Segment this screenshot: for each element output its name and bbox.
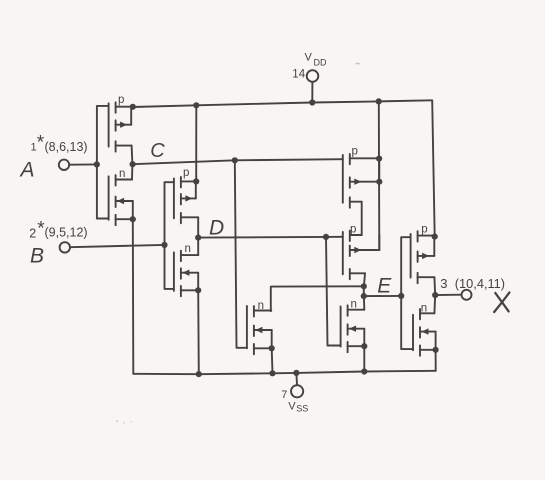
- scan smudge: [356, 63, 361, 65]
- node label A: [19, 158, 35, 181]
- wire N5 source down to VSS rail: [435, 350, 437, 371]
- wire N3 drain up to node E: [271, 286, 364, 311]
- label n of N2: [185, 243, 191, 255]
- junction N4 source: [361, 343, 367, 349]
- wire N5 drain up to output node X: [433, 295, 436, 313]
- svg-text:(8,6,13): (8,6,13): [45, 140, 88, 154]
- transistor P3 (p-channel, series pull-up, gate C): [343, 154, 380, 208]
- scan speck: [116, 420, 132, 424]
- transistor P5 (p-channel, output inverter): [411, 231, 435, 283]
- junction node C at N3 gate feed: [232, 157, 238, 163]
- wire node E jog: [363, 286, 365, 296]
- svg-text:p: p: [352, 146, 358, 158]
- node label D: [209, 217, 224, 240]
- wire P2 drain down to node D: [197, 217, 199, 237]
- wire P1 drain to node C: [131, 146, 134, 165]
- transistor P4 (p-channel, series pull-up, gate D): [343, 231, 380, 280]
- transistor N5 (n-channel, output inverter): [413, 309, 436, 356]
- input terminal B circle: [60, 242, 70, 252]
- svg-text:p: p: [350, 223, 356, 235]
- wire N3 source down to VSS rail: [271, 348, 274, 373]
- junction N2 source: [195, 287, 201, 293]
- wire N1 source down to VSS rail: [132, 219, 135, 374]
- svg-text:SS: SS: [296, 403, 308, 413]
- wire node C to P3 gate: [132, 159, 342, 164]
- junction node C at inverter A output: [130, 161, 136, 167]
- transistor P1 (p-channel, input A inverter): [109, 102, 133, 151]
- node label C: [150, 140, 165, 162]
- junction node D at N4 gate feed: [323, 234, 329, 240]
- wire node E to output inverter gate stem: [364, 295, 401, 297]
- wire vertical VDD rail to P2 source: [195, 105, 197, 181]
- junction P3 source on VDD vertical: [376, 156, 382, 162]
- svg-text:A: A: [19, 158, 35, 181]
- wire node D down to N4 gate: [326, 237, 341, 346]
- svg-text:2: 2: [29, 226, 36, 240]
- label p of P4: [350, 223, 356, 235]
- junction rail at P2 feed: [193, 102, 199, 108]
- label n of N1: [119, 168, 125, 180]
- label n of N5: [421, 303, 427, 315]
- wire node D to P4 gate: [198, 236, 343, 239]
- junction rail at N3 source: [269, 370, 275, 376]
- wire gate stem inverter B: [165, 182, 174, 289]
- transistor P2 (p-channel, input B inverter): [174, 177, 198, 223]
- wire output node X to terminal: [435, 294, 461, 296]
- node label X: [494, 293, 509, 313]
- svg-text:1: 1: [31, 141, 37, 153]
- wire N2 source down to VSS rail: [197, 290, 200, 374]
- wire VSS bottom rail: [133, 371, 435, 374]
- pin number 14: [292, 69, 305, 81]
- junction N5 source: [433, 347, 439, 353]
- junction rail at P3 feed: [376, 98, 382, 104]
- junction N3 source: [269, 345, 275, 351]
- svg-text:n: n: [258, 300, 264, 312]
- wire N1 drain up to node C: [131, 164, 133, 179]
- svg-text:p: p: [421, 223, 427, 235]
- junction rail at VDD terminal: [309, 99, 315, 105]
- wire right vertical from VDD rail to P5 source: [432, 100, 435, 236]
- pin list (10,4,11): [455, 276, 505, 291]
- wire N4 source down to VSS rail: [363, 346, 365, 371]
- pin list (9,5,12): [45, 225, 88, 239]
- junction output node X: [432, 292, 438, 298]
- junction rail at N2 source: [196, 371, 202, 377]
- net label VDD: [305, 52, 327, 68]
- junction node E on output gate stem: [398, 293, 404, 299]
- svg-text:B: B: [30, 245, 44, 268]
- wire gate stem output inverter: [401, 237, 413, 349]
- svg-text:n: n: [351, 298, 357, 310]
- svg-text:D: D: [209, 217, 224, 240]
- output terminal circle pin 3: [462, 290, 472, 300]
- wire vertical VDD rail to P3 source and p-bulk: [378, 101, 381, 250]
- wire node C down to N3 gate: [235, 160, 247, 347]
- junction rail at N4 source: [361, 368, 367, 374]
- transistor N3 (n-channel, series pull-down, gate C): [247, 306, 272, 354]
- transistor N2 (n-channel, input B inverter): [174, 251, 198, 297]
- svg-text:n: n: [185, 243, 191, 255]
- wire gate stem inverter A: [97, 106, 109, 219]
- svg-text:V: V: [305, 52, 313, 64]
- power terminal VDD pin 14 stub: [311, 82, 313, 103]
- svg-text:DD: DD: [314, 58, 327, 68]
- wire N2 drain up to node D: [197, 238, 199, 256]
- wire P4 drain down to node E: [364, 273, 365, 286]
- transistor N1 (n-channel, input A inverter): [109, 175, 133, 225]
- svg-text:(10,4,11): (10,4,11): [455, 276, 505, 291]
- junction node E upper (P4 drain / N3 drain): [361, 283, 367, 289]
- pin list (8,6,13): [45, 140, 88, 154]
- label p of P2: [183, 167, 189, 179]
- wire input A to gate stem: [69, 163, 96, 165]
- svg-text:p: p: [183, 167, 189, 179]
- junction rail at P1 source: [130, 104, 136, 110]
- label n of N4: [351, 298, 357, 310]
- label n of N3: [258, 300, 264, 312]
- svg-text:n: n: [421, 303, 427, 315]
- junction B on gate stem: [161, 242, 167, 248]
- svg-text:14: 14: [292, 69, 305, 81]
- power terminal VSS pin 7 stub: [295, 373, 298, 385]
- label p of P3: [352, 146, 358, 158]
- wire VDD top rail: [133, 100, 432, 107]
- transistor N4 (n-channel, series pull-down, gate D): [341, 305, 365, 352]
- junction node E lower (N4 drain): [361, 293, 367, 299]
- wire P5 drain down to output node X: [433, 277, 436, 295]
- svg-text:(9,5,12): (9,5,12): [45, 225, 88, 239]
- net label VSS: [288, 400, 308, 413]
- pin number 7: [281, 389, 287, 401]
- pin number 1*: [31, 133, 45, 154]
- power terminal VSS circle: [291, 385, 303, 397]
- svg-text:3: 3: [440, 276, 447, 291]
- svg-text:E: E: [377, 275, 392, 298]
- wire N4 drain up to node E: [363, 296, 365, 310]
- junction P2 source at feed: [193, 178, 199, 184]
- pin number 3: [440, 276, 447, 291]
- junction rail at VSS terminal: [293, 370, 299, 376]
- junction P5 source on VDD vertical: [432, 234, 438, 240]
- label p of P1: [118, 94, 124, 106]
- wire P3 drain to P4 source: [361, 202, 363, 235]
- wire input B to gate stem: [70, 245, 165, 247]
- svg-text:7: 7: [281, 389, 287, 401]
- junction N1 source: [130, 216, 136, 222]
- label p of P5: [421, 223, 427, 235]
- pin number 2*: [29, 219, 45, 241]
- svg-text:V: V: [288, 400, 296, 412]
- junction A on gate stem: [94, 161, 100, 167]
- junction node D at inverter B output: [195, 235, 201, 241]
- node label E: [377, 275, 392, 298]
- svg-text:n: n: [119, 168, 125, 180]
- svg-text:C: C: [150, 140, 165, 162]
- node label B: [30, 245, 44, 268]
- input terminal A circle: [59, 160, 69, 170]
- power terminal VDD circle: [307, 70, 319, 82]
- svg-text:p: p: [118, 94, 124, 106]
- junction P3 bulk on VDD vertical: [376, 179, 382, 185]
